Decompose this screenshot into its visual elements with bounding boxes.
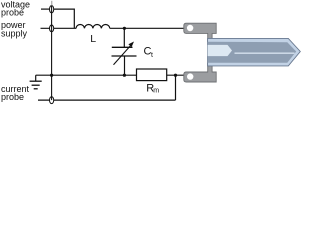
svg-text:m: m [153, 88, 159, 95]
svg-text:L: L [90, 33, 96, 45]
transducer bracket [184, 23, 216, 82]
node: bus mid junction [50, 74, 53, 77]
blade center line [235, 52, 295, 54]
capacitor variable arrow [114, 45, 132, 65]
terminal hole top [187, 25, 193, 31]
wire: inductor to top terminal [110, 27, 185, 29]
wire: capacitor bottom lead [124, 56, 126, 75]
wire: vertical bus [51, 6, 53, 100]
svg-text:probe: probe [1, 8, 24, 18]
svg-text:t: t [151, 52, 153, 59]
wire: top wire to corner [52, 9, 75, 28]
wire: right drop to bottom wire [175, 75, 177, 100]
blade neck highlight [208, 45, 232, 56]
wire: voltage probe stub [41, 8, 52, 10]
node: capacitor top junction [123, 27, 126, 30]
wire: resistor to right junction [167, 74, 185, 76]
node: right junction [174, 74, 177, 77]
svg-text:supply: supply [1, 28, 28, 38]
resistor Rm [137, 69, 167, 81]
wire: power supply stub [41, 27, 77, 29]
probe ellipse voltage [50, 6, 54, 13]
blade core [208, 42, 297, 63]
wire: bottom wire [38, 99, 176, 101]
wire: capacitor top lead [123, 28, 125, 47]
svg-text:probe: probe [1, 92, 24, 102]
terminal hole bottom [187, 73, 193, 79]
probe ellipse power [50, 25, 54, 32]
capacitor Ct plates [112, 46, 133, 48]
ground [35, 75, 37, 81]
probe ellipse current [50, 97, 54, 104]
blade outer [208, 38, 301, 66]
inductor L [76, 24, 110, 28]
node: capacitor bottom junction [123, 74, 126, 77]
wire: vertical bus top stub [51, 1, 53, 6]
wire: mid wire ground to resistor [36, 74, 137, 76]
